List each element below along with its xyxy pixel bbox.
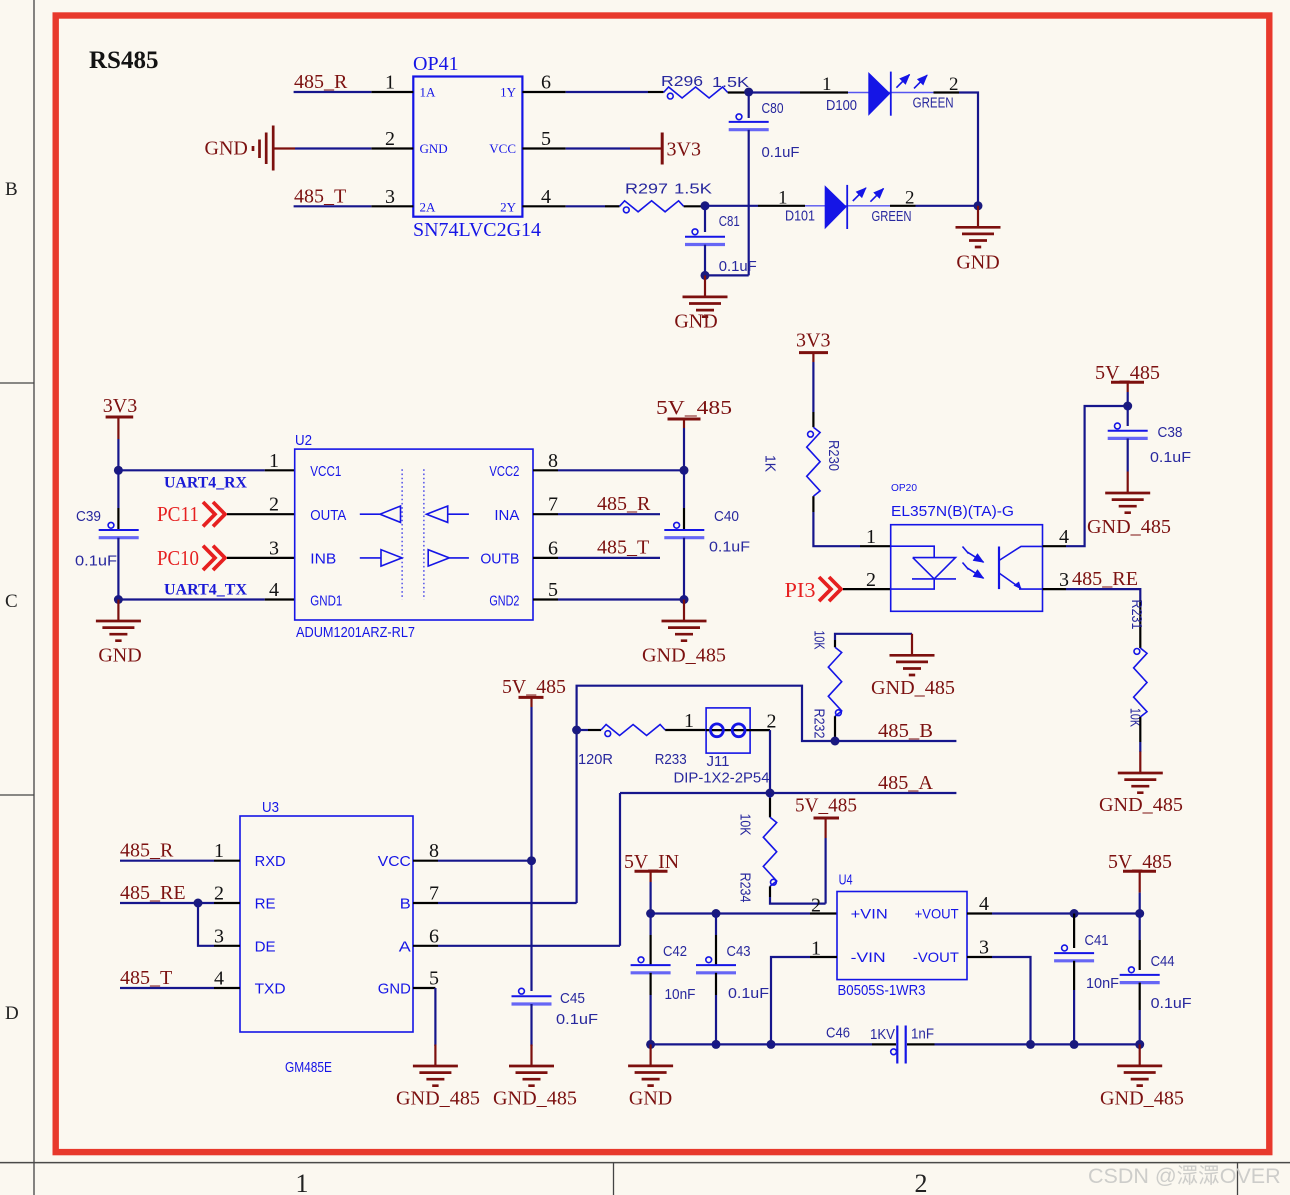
zone tick right: [1237, 1163, 1239, 1195]
svg-text:GND_485: GND_485: [396, 1088, 480, 1110]
svg-text:0.1uF: 0.1uF: [1151, 995, 1192, 1012]
svg-text:-VIN: -VIN: [851, 949, 886, 965]
svg-text:3V3: 3V3: [667, 139, 701, 161]
svg-text:OP20: OP20: [891, 483, 917, 494]
svg-text:2: 2: [915, 1169, 928, 1195]
wire node to D100: [749, 91, 800, 93]
svg-text:5V_485: 5V_485: [502, 676, 566, 698]
OP20 phototransistor: [999, 546, 1043, 589]
power 5V_485 above C40: [656, 397, 732, 428]
node C41 top: [1070, 909, 1079, 918]
svg-text:3V3: 3V3: [796, 330, 830, 352]
wire pin7 B: [413, 902, 438, 904]
capacitor C46 (series): [826, 1025, 934, 1064]
svg-text:C46: C46: [826, 1025, 850, 1042]
wire pin5 GND: [413, 987, 435, 989]
svg-text:485_R: 485_R: [597, 493, 651, 515]
svg-text:3: 3: [1059, 569, 1069, 591]
svg-text:4: 4: [979, 893, 989, 915]
svg-text:VCC: VCC: [489, 141, 516, 156]
pin 6 stub: [522, 91, 565, 93]
svg-text:7: 7: [429, 883, 439, 905]
wire 5V_IN down: [649, 882, 651, 914]
svg-text:C38: C38: [1158, 424, 1183, 441]
svg-text:VCC: VCC: [378, 853, 411, 870]
wire 485_RE to pin2: [120, 902, 214, 904]
svg-text:VCC2: VCC2: [489, 463, 519, 480]
svg-text:1: 1: [385, 72, 395, 94]
wire PC10 to pin3: [227, 557, 295, 559]
wire pin8 VCC: [413, 860, 438, 862]
svg-text:PI3: PI3: [785, 578, 816, 602]
sheet border bottom line: [0, 1162, 1290, 1164]
svg-text:R233: R233: [655, 751, 687, 768]
svg-text:0.1uF: 0.1uF: [75, 553, 117, 570]
pin 2 stub: [371, 147, 413, 149]
svg-text:C43: C43: [727, 943, 751, 960]
svg-text:GND_485: GND_485: [1100, 1088, 1184, 1110]
power 5V_485 (above U3 VCC): [502, 676, 566, 707]
svg-text:R231: R231: [1128, 600, 1145, 630]
svg-text:1: 1: [684, 710, 694, 732]
svg-text:RXD: RXD: [255, 853, 286, 870]
svg-text:C41: C41: [1085, 932, 1109, 949]
node -VIN/gnd rail: [767, 1040, 776, 1049]
wire J11 pin2 down to 485_A: [750, 729, 770, 731]
svg-text:2: 2: [214, 883, 224, 905]
svg-text:GND_485: GND_485: [871, 677, 955, 699]
capacitor C41: [1054, 914, 1119, 1045]
ground GND_485 (R232): [871, 634, 955, 699]
svg-text:R232: R232: [811, 709, 828, 739]
power 3V3 (opto): [796, 330, 830, 363]
ground GND below C39: [96, 600, 142, 667]
wire R232 bottom pin: [834, 716, 836, 741]
svg-text:2: 2: [866, 569, 876, 591]
svg-text:-VOUT: -VOUT: [913, 949, 959, 965]
svg-text:3: 3: [269, 537, 279, 559]
node R296/C80/D100: [744, 88, 753, 97]
wire R231 to gnd: [1139, 717, 1141, 742]
pin 4 stub: [522, 205, 565, 207]
ground GND_485 (output side): [1100, 1044, 1184, 1109]
port PI3: [785, 577, 842, 602]
svg-text:+VOUT: +VOUT: [915, 906, 959, 922]
ground GND below C81: [674, 275, 727, 332]
svg-text:TXD: TXD: [255, 981, 286, 998]
svg-text:DE: DE: [255, 938, 276, 955]
svg-text:1A: 1A: [420, 85, 437, 100]
svg-text:R297: R297: [625, 181, 668, 198]
svg-text:0.1uF: 0.1uF: [556, 1011, 598, 1028]
resistor R233: [578, 725, 687, 769]
wire 5V485 stub down: [824, 838, 826, 904]
svg-text:10K: 10K: [737, 814, 754, 836]
svg-text:1.5K: 1.5K: [674, 181, 712, 198]
wire 5V_485 down to U3 VCC: [530, 707, 532, 861]
resistor R231: [1127, 600, 1148, 728]
svg-text:1: 1: [866, 526, 876, 548]
svg-text:EL357N(B)(TA)-G: EL357N(B)(TA)-G: [891, 503, 1014, 520]
node pin5/C40: [680, 595, 689, 604]
wire -VOUT down: [967, 956, 992, 958]
svg-text:D100: D100: [826, 97, 857, 114]
node C43/gnd rail: [712, 1040, 721, 1049]
ground GND_485 (C45): [493, 1045, 577, 1110]
resistor R234: [737, 793, 777, 903]
power 5V_IN: [624, 851, 679, 882]
svg-text:1nF: 1nF: [911, 1026, 934, 1043]
svg-text:GND_485: GND_485: [493, 1088, 577, 1110]
wire pin6 A: [413, 945, 438, 947]
svg-text:1: 1: [822, 74, 832, 95]
svg-text:B: B: [400, 896, 411, 913]
resistor R297: [620, 181, 713, 213]
svg-text:J11: J11: [707, 753, 730, 770]
sheet border left line: [33, 0, 35, 1195]
svg-text:B: B: [5, 179, 18, 200]
svg-text:485_T: 485_T: [597, 537, 649, 559]
svg-text:120R: 120R: [578, 751, 613, 768]
ground GND_485 below C38: [1087, 472, 1171, 539]
svg-text:2: 2: [811, 895, 821, 917]
IC U2 box: [295, 432, 533, 641]
node C41 bottom: [1070, 1040, 1079, 1049]
pin 3 stub: [371, 205, 413, 207]
capacitor C81: [685, 206, 757, 276]
pin 1 stub: [371, 91, 413, 93]
power 3V3 left: [103, 395, 137, 439]
svg-text:10K: 10K: [811, 631, 828, 650]
capacitor C40: [664, 470, 750, 599]
node R232/485_B: [831, 737, 840, 746]
svg-text:485_RE: 485_RE: [1072, 568, 1138, 590]
opto pin 4 stub: [1043, 545, 1067, 547]
svg-text:5V_485: 5V_485: [656, 397, 732, 419]
wire PC11 to pin2: [227, 513, 295, 515]
svg-text:3: 3: [385, 186, 395, 208]
wire RE to DE: [198, 903, 214, 946]
svg-text:GND_485: GND_485: [1087, 516, 1171, 538]
port PC10: [157, 546, 225, 570]
power 5V_485 (opto): [1095, 362, 1160, 392]
capacitor C38: [1108, 406, 1191, 472]
gnd_485 rail right: [907, 1043, 935, 1045]
wire 5V485 bar to node: [1127, 392, 1129, 406]
svg-text:6: 6: [548, 537, 558, 559]
opto pin 3 stub: [1043, 588, 1067, 590]
svg-text:GND1: GND1: [310, 593, 342, 610]
node pin8/C40: [680, 466, 689, 475]
svg-text:485_T: 485_T: [294, 185, 346, 207]
svg-text:6: 6: [429, 925, 439, 947]
svg-text:OUTA: OUTA: [310, 507, 346, 524]
svg-text:GND2: GND2: [489, 593, 519, 610]
capacitor C44: [1120, 914, 1192, 1045]
svg-text:6: 6: [541, 72, 551, 94]
wire pin6 485_T: [533, 557, 558, 559]
svg-text:SN74LVC2G14: SN74LVC2G14: [413, 219, 541, 241]
IC U3 box: [240, 799, 413, 1076]
svg-text:U4: U4: [839, 872, 853, 889]
node C39/pin4: [114, 595, 123, 604]
svg-text:485_B: 485_B: [878, 720, 933, 742]
wire gnd-pin2: [273, 147, 295, 149]
wire pin7 485_R: [533, 513, 558, 515]
node 5VIN/C42: [646, 909, 655, 918]
node C42/gnd rail: [646, 1040, 655, 1049]
svg-text:GND: GND: [420, 141, 448, 156]
svg-text:485_T: 485_T: [120, 967, 172, 989]
zone tick C/D: [0, 794, 34, 796]
svg-text:3V3: 3V3: [103, 395, 137, 417]
node VCC/5V485/C45: [527, 856, 536, 865]
svg-text:0.1uF: 0.1uF: [709, 539, 750, 556]
svg-text:GND: GND: [956, 252, 999, 274]
wire pin4: [118, 598, 264, 600]
node C81/C80/GND: [701, 271, 710, 280]
wire pin4 to R297: [566, 205, 605, 207]
svg-text:INB: INB: [310, 551, 336, 568]
svg-text:10nF: 10nF: [1086, 975, 1119, 992]
svg-text:C44: C44: [1151, 953, 1175, 970]
svg-text:GND: GND: [98, 645, 141, 667]
svg-text:1: 1: [296, 1169, 309, 1195]
wire R230 to opto pin1: [812, 496, 814, 512]
svg-text:GND: GND: [205, 138, 248, 160]
svg-text:1K: 1K: [762, 455, 779, 472]
svg-text:RE: RE: [255, 896, 276, 913]
svg-text:PC11: PC11: [157, 502, 199, 526]
svg-text:10nF: 10nF: [665, 986, 696, 1003]
svg-text:5: 5: [548, 579, 558, 601]
wire pin8 to 5V_485: [533, 469, 558, 471]
resistor R230: [762, 427, 843, 496]
wire 485_T to pin4: [120, 987, 214, 989]
power 3V3 (bar): [662, 133, 701, 165]
node RE/DE: [194, 899, 203, 908]
svg-text:GND: GND: [629, 1088, 672, 1110]
node B/R233: [572, 726, 581, 735]
wire node to R233: [577, 729, 588, 731]
svg-text:0.1uF: 0.1uF: [728, 985, 769, 1002]
svg-text:C81: C81: [719, 213, 740, 230]
node 5V485/+VOUT/C44: [1135, 909, 1144, 918]
wire D100 to corner: [934, 91, 960, 93]
svg-text:+VIN: +VIN: [851, 906, 888, 922]
node R297/C81/D101: [701, 201, 710, 210]
svg-text:C45: C45: [560, 990, 585, 1007]
svg-text:0.1uF: 0.1uF: [719, 258, 757, 275]
node C43/+VIN: [712, 909, 721, 918]
svg-text:DIP-1X2-2P54: DIP-1X2-2P54: [674, 770, 770, 787]
op-amp U=OP41 box: [413, 53, 541, 241]
wire pin5: [533, 598, 558, 600]
svg-text:1.5K: 1.5K: [712, 74, 749, 91]
svg-text:UART4_RX: UART4_RX: [164, 475, 247, 492]
svg-text:2A: 2A: [420, 200, 437, 215]
svg-text:7: 7: [548, 494, 558, 516]
capacitor C43: [696, 914, 769, 1045]
connector J11: [674, 708, 770, 787]
svg-text:1KV: 1KV: [870, 1026, 895, 1043]
svg-text:485_A: 485_A: [878, 772, 934, 794]
wire pin4 to 5V_485: [1066, 406, 1128, 546]
svg-text:C: C: [5, 591, 18, 612]
svg-text:R296: R296: [661, 73, 703, 90]
svg-text:5: 5: [429, 968, 439, 990]
wire 485_A: [620, 792, 956, 794]
svg-text:4: 4: [214, 968, 224, 990]
svg-text:UART4_TX: UART4_TX: [164, 581, 247, 598]
svg-text:5V_485: 5V_485: [795, 795, 857, 817]
svg-text:U2: U2: [295, 432, 312, 449]
wire 485_R to pin1: [120, 860, 214, 862]
pin 5 stub: [522, 147, 565, 149]
ground GND right: [956, 206, 1001, 274]
svg-text:485_RE: 485_RE: [120, 882, 186, 904]
U2 buffer triangles: [360, 506, 469, 566]
svg-text:4: 4: [269, 579, 279, 601]
svg-text:3: 3: [214, 925, 224, 947]
svg-text:C40: C40: [714, 508, 739, 525]
ground GND_485 (U3 pin5): [396, 1045, 480, 1110]
svg-text:PC10: PC10: [157, 546, 199, 570]
svg-text:GND: GND: [378, 981, 411, 998]
svg-text:3: 3: [979, 937, 989, 959]
OP20 light arrows: [963, 547, 984, 579]
ground GND_485 below R231: [1099, 752, 1183, 817]
port PC11: [157, 502, 225, 526]
node C44/rail: [1135, 1040, 1144, 1049]
optocoupler OP20 box: [891, 483, 1043, 611]
svg-text:1: 1: [778, 188, 788, 209]
svg-text:0.1uF: 0.1uF: [1150, 449, 1191, 466]
svg-text:C39: C39: [76, 508, 101, 525]
gnd rail left: [651, 1043, 872, 1045]
svg-text:1: 1: [269, 450, 279, 472]
svg-text:B0505S-1WR3: B0505S-1WR3: [838, 982, 926, 999]
svg-text:R230: R230: [825, 440, 842, 471]
svg-text:CSDN @潀潀OVER: CSDN @潀潀OVER: [1088, 1164, 1281, 1188]
wire 5V_485 down: [683, 428, 685, 470]
ground GND (input side): [628, 1044, 673, 1109]
svg-text:GM485E: GM485E: [285, 1059, 332, 1076]
wire B net vertical: [577, 686, 835, 903]
wire R232 top to GND_485: [834, 640, 836, 647]
svg-text:C80: C80: [762, 100, 784, 117]
svg-text:ADUM1201ARZ-RL7: ADUM1201ARZ-RL7: [296, 624, 415, 641]
wire 485_T: [294, 205, 372, 207]
svg-text:A: A: [399, 938, 411, 955]
svg-text:C42: C42: [663, 943, 687, 960]
wire +VIN: [651, 912, 810, 914]
node 5V485/C38: [1123, 402, 1132, 411]
wire 5V485 to +VOUT: [1139, 893, 1141, 914]
node -VOUT/rail: [1026, 1040, 1035, 1049]
wire pin6 to R296: [566, 91, 648, 93]
ground GND_485 below C40: [642, 600, 726, 667]
power 5V_485 (R234): [795, 795, 857, 839]
wire R234 to 5V_485: [769, 886, 771, 897]
wire R233 to J11: [665, 729, 706, 731]
capacitor C42: [631, 914, 696, 1045]
capacitor C80: [705, 92, 800, 275]
power 5V_485 (output): [1108, 851, 1172, 893]
svg-text:GND_485: GND_485: [1099, 794, 1183, 816]
ground GND at pin2 (rotated): [205, 126, 274, 171]
resistor R296: [661, 73, 749, 99]
wire PI3 to opto pin2: [843, 588, 891, 590]
wire D101 to node: [890, 205, 916, 207]
svg-text:8: 8: [429, 840, 439, 862]
svg-text:D: D: [5, 1003, 19, 1024]
svg-text:GREEN: GREEN: [872, 208, 912, 225]
node 485_A/J11/R234: [766, 789, 775, 798]
svg-text:5: 5: [541, 128, 551, 150]
svg-text:4: 4: [1059, 526, 1069, 548]
LED D100: [826, 72, 954, 116]
svg-text:RS485: RS485: [89, 47, 158, 74]
wire pin1: [118, 469, 264, 471]
svg-text:2: 2: [269, 494, 279, 516]
zone tick B/C: [0, 382, 34, 384]
svg-text:0.1uF: 0.1uF: [762, 144, 800, 161]
svg-text:485_R: 485_R: [120, 840, 174, 862]
svg-text:2Y: 2Y: [500, 200, 517, 215]
svg-text:U3: U3: [262, 799, 279, 816]
wire 485_B: [835, 740, 956, 742]
wire pin3 485_RE: [1066, 589, 1140, 600]
wire +VOUT to 5V_485: [967, 912, 992, 914]
svg-text:1: 1: [214, 840, 224, 862]
svg-text:OP41: OP41: [413, 53, 459, 75]
wire pin5 to 3V3: [566, 147, 630, 149]
svg-text:INA: INA: [494, 507, 519, 524]
svg-text:D101: D101: [785, 208, 815, 225]
svg-text:2: 2: [385, 128, 395, 150]
svg-text:GREEN: GREEN: [913, 95, 954, 112]
U2 isolation barrier dotted lines: [402, 469, 424, 599]
svg-text:8: 8: [548, 450, 558, 472]
IC U4 box: [837, 872, 967, 1000]
svg-text:4: 4: [541, 186, 551, 208]
node 3V3/C39/pin1: [114, 466, 123, 475]
wire node to D101: [705, 205, 758, 207]
resistor R232: [811, 631, 842, 739]
OP20 internal LED: [891, 546, 956, 589]
svg-text:1Y: 1Y: [500, 85, 517, 100]
wire 3V3 to R230: [812, 362, 814, 412]
svg-text:VCC1: VCC1: [310, 463, 341, 480]
wire -VIN: [810, 956, 837, 958]
svg-text:GND_485: GND_485: [642, 645, 726, 667]
node D101/GND: [974, 201, 983, 210]
svg-text:OUTB: OUTB: [480, 551, 519, 568]
wire 3V3 down: [117, 439, 119, 470]
wire 485_R: [294, 91, 372, 93]
LED D101: [785, 185, 912, 229]
svg-text:R234: R234: [737, 873, 754, 903]
capacitor C45: [512, 861, 599, 1046]
svg-text:485_R: 485_R: [294, 71, 348, 93]
capacitor C39: [75, 470, 139, 599]
svg-text:GND: GND: [674, 311, 717, 333]
zone tick 1/2: [613, 1163, 615, 1195]
